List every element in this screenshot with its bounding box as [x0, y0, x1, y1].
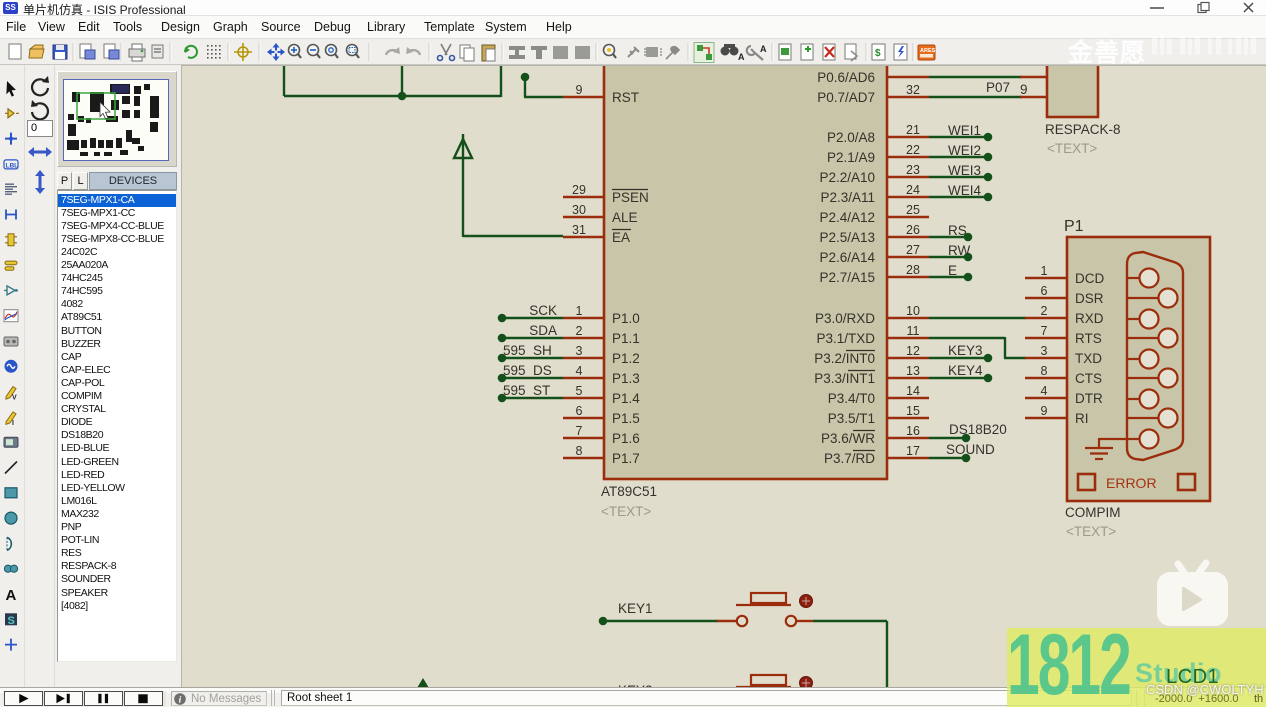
selector buttons: [57, 172, 72, 190]
pin 8 P1.7: [563, 457, 605, 459]
title bar: [0, 0, 1266, 16]
svg-text:KEY4: KEY4: [948, 363, 983, 378]
wire P2 net RW: [929, 256, 968, 258]
pin 2 RXD: [1025, 317, 1068, 319]
svg-text:P3.2/INT0: P3.2/INT0: [814, 351, 875, 366]
pin P0.6/AD6: [886, 76, 929, 78]
ground symbol: [1099, 438, 1128, 440]
button actuator dot: [800, 595, 813, 608]
wire EA horizontal: [463, 235, 563, 237]
svg-text:P3.3/INT1: P3.3/INT1: [814, 371, 875, 386]
pin 6 DSR: [1025, 297, 1068, 299]
svg-text:P0.6/AD6: P0.6/AD6: [817, 70, 875, 85]
wire P3.7 net SOUND: [929, 457, 966, 459]
rotate controls: [26, 72, 54, 192]
svg-text:SCK: SCK: [529, 303, 557, 318]
pin 14 P3.4/T0: [886, 397, 929, 399]
toolbar: [0, 38, 1266, 65]
svg-text:8: 8: [1041, 364, 1048, 378]
power terminal VCC arrow: [454, 139, 472, 158]
svg-text:22: 22: [906, 143, 920, 157]
svg-text:9: 9: [1020, 82, 1028, 97]
DB9 pin hole right: [1127, 417, 1159, 419]
svg-text:ARES: ARES: [920, 48, 936, 54]
svg-text:ALE: ALE: [612, 210, 638, 225]
svg-text:595_SH: 595_SH: [503, 343, 552, 358]
wire RST horizontal: [524, 96, 563, 98]
svg-text:4: 4: [1041, 384, 1048, 398]
svg-text:P0.7/AD7: P0.7/AD7: [817, 90, 875, 105]
pin 21 P2.0/A8: [886, 136, 929, 138]
DB9 connector outline: [1127, 252, 1183, 460]
wire P2 net WEI2: [929, 156, 988, 158]
svg-text:AT89C51: AT89C51: [601, 484, 657, 499]
wire to button: [603, 620, 718, 622]
svg-text:WEI4: WEI4: [948, 183, 981, 198]
wire vertical mid: [401, 66, 403, 96]
svg-text:7: 7: [576, 424, 583, 438]
svg-text:ERROR: ERROR: [1106, 475, 1157, 491]
pin 13 P3.3/INT1: [886, 377, 929, 379]
svg-text:30: 30: [572, 203, 586, 217]
watermark CSDN id: [1146, 682, 1264, 697]
svg-text:EA: EA: [612, 230, 630, 245]
svg-text:KEY3: KEY3: [948, 343, 983, 358]
left tool strip: [0, 0, 24, 680]
svg-text:P2.4/A12: P2.4/A12: [819, 210, 875, 225]
pin 4 P1.3: [563, 377, 605, 379]
wire P2 net WEI1: [929, 136, 988, 138]
svg-text:SDA: SDA: [529, 323, 557, 338]
wire P3.6 net DS18B20: [929, 437, 966, 439]
message area: [171, 691, 267, 706]
pin 22 P2.1/A9: [886, 156, 929, 158]
button pin left: [717, 702, 736, 704]
svg-text:P3.7/RD: P3.7/RD: [824, 451, 875, 466]
wire to button: [603, 702, 718, 704]
svg-text:11: 11: [907, 324, 920, 338]
svg-text:24: 24: [906, 183, 920, 197]
svg-text:2: 2: [1041, 304, 1048, 318]
svg-text:RESPACK-8: RESPACK-8: [1045, 122, 1121, 137]
watermark 1812 studio badge: [1007, 628, 1266, 707]
svg-text:10: 10: [906, 304, 920, 318]
svg-text:P3.6/WR: P3.6/WR: [821, 431, 875, 446]
svg-text:595_ST: 595_ST: [503, 383, 550, 398]
DB9 pin hole left: [1127, 358, 1140, 360]
status bar: [0, 687, 1266, 707]
svg-text:31: 31: [572, 223, 586, 237]
svg-text:P3.4/T0: P3.4/T0: [828, 391, 875, 406]
wire P3 net KEY4: [929, 377, 988, 379]
pin 29 PSEN: [563, 196, 605, 198]
svg-text:9: 9: [1041, 404, 1048, 418]
wire P1 net 595_ST: [502, 397, 563, 399]
pin 10 P3.0/RXD: [886, 317, 929, 319]
svg-text:DTR: DTR: [1075, 391, 1103, 406]
svg-text:2: 2: [576, 324, 583, 338]
DB9 pin hole left: [1127, 318, 1140, 320]
svg-text:28: 28: [906, 263, 920, 277]
svg-text:P1.5: P1.5: [612, 411, 640, 426]
wire top bus horizontal: [284, 95, 501, 97]
svg-text:8: 8: [576, 444, 583, 458]
pin 16 P3.6/WR: [886, 437, 929, 439]
svg-text:DS18B20: DS18B20: [949, 422, 1007, 437]
DB9 pin hole left: [1127, 277, 1140, 279]
wire vertical right: [500, 66, 502, 97]
svg-text:21: 21: [906, 123, 920, 137]
svg-text:P3.5/T1: P3.5/T1: [828, 411, 875, 426]
pin 8 CTS: [1025, 377, 1068, 379]
wire P2 net WEI3: [929, 176, 988, 178]
svg-text:LBL: LBL: [6, 162, 19, 169]
wire P1 net 595_DS: [502, 377, 563, 379]
svg-text:DSR: DSR: [1075, 291, 1104, 306]
pin 31 EA: [563, 236, 605, 238]
svg-text:E: E: [948, 263, 957, 278]
button pin left: [717, 620, 736, 622]
svg-text:32: 32: [906, 83, 920, 97]
svg-text:12: 12: [906, 344, 920, 358]
svg-text:COMPIM: COMPIM: [1065, 505, 1121, 520]
svg-text:RS: RS: [948, 223, 967, 238]
root sheet field: [281, 690, 1132, 706]
svg-text:P2.5/A13: P2.5/A13: [819, 230, 875, 245]
DB9 pin hole right: [1127, 337, 1159, 339]
svg-text:TXD: TXD: [1075, 351, 1102, 366]
pin 1 DCD: [1025, 277, 1068, 279]
wire P1 net SDA: [502, 337, 563, 339]
pin 2 P1.1: [563, 337, 605, 339]
svg-text:3: 3: [576, 344, 583, 358]
junction on top bus: [398, 92, 407, 101]
pin 9 RI: [1025, 417, 1068, 419]
wire P0.7 to RESPACK: [929, 96, 1022, 98]
pin 30 ALE: [563, 216, 605, 218]
svg-text:A: A: [738, 52, 745, 62]
pin 27 P2.6/A14: [886, 256, 929, 258]
svg-text:RTS: RTS: [1075, 331, 1102, 346]
svg-text:P2.6/A14: P2.6/A14: [819, 250, 875, 265]
pin 1 P1.0: [563, 317, 605, 319]
svg-text:15: 15: [906, 404, 920, 418]
svg-text:P2.1/A9: P2.1/A9: [827, 150, 875, 165]
svg-text:<TEXT>: <TEXT>: [601, 504, 651, 519]
svg-text:S: S: [8, 615, 15, 627]
wire vertical left: [283, 66, 285, 96]
wire P3.0 RXD to COMPIM: [929, 317, 1026, 319]
op-amp U1 AT89C51 body: [604, 53, 887, 479]
pin 25 P2.4/A12: [886, 216, 929, 218]
wire EA vertical: [462, 158, 464, 237]
pin 12 P3.2/INT0: [886, 357, 929, 359]
svg-text:3: 3: [1041, 344, 1048, 358]
wire P2 net E: [929, 276, 968, 278]
wire from button: [813, 620, 887, 622]
DB9 pin hole left: [1127, 398, 1140, 400]
pin 17 P3.7/RD: [886, 457, 929, 459]
svg-text:WEI2: WEI2: [948, 143, 981, 158]
svg-text:RW: RW: [948, 243, 971, 258]
svg-text:<TEXT>: <TEXT>: [1066, 524, 1116, 539]
overview pane: [57, 71, 177, 167]
svg-text:1: 1: [576, 304, 583, 318]
svg-text:A: A: [6, 587, 17, 604]
svg-text:9: 9: [576, 83, 583, 97]
svg-text:P3.1/TXD: P3.1/TXD: [816, 331, 875, 346]
svg-text:RI: RI: [1075, 411, 1089, 426]
svg-text:5: 5: [576, 384, 583, 398]
pin 23 P2.2/A10: [886, 176, 929, 178]
svg-text:WEI3: WEI3: [948, 163, 981, 178]
svg-text:6: 6: [576, 404, 583, 418]
wire from button: [813, 702, 887, 704]
svg-text:CTS: CTS: [1075, 371, 1102, 386]
wire P2 net RS: [929, 236, 968, 238]
svg-text:6: 6: [1041, 284, 1048, 298]
pin 9 RST: [563, 96, 605, 98]
device list: [57, 190, 177, 662]
menu bar: [0, 16, 1266, 38]
svg-text:P1.2: P1.2: [612, 351, 640, 366]
svg-text:595_DS: 595_DS: [503, 363, 552, 378]
wire P1 net SCK: [502, 317, 563, 319]
svg-text:P07: P07: [986, 80, 1010, 95]
DB9 pin hole left: [1127, 438, 1140, 440]
left panel: [0, 65, 181, 687]
pin 3 TXD: [1025, 357, 1068, 359]
svg-text:i: i: [179, 696, 182, 706]
svg-text:P2.2/A10: P2.2/A10: [819, 170, 875, 185]
pin 32 P0.7/AD7: [886, 96, 929, 98]
svg-text:23: 23: [906, 163, 920, 177]
pin 4 DTR: [1025, 397, 1068, 399]
button pin right: [786, 698, 796, 707]
button actuator dot: [800, 677, 813, 690]
svg-text:V: V: [12, 395, 17, 402]
svg-text:P1.1: P1.1: [612, 331, 640, 346]
svg-text:4: 4: [576, 364, 583, 378]
svg-text:P1.6: P1.6: [612, 431, 640, 446]
svg-text:WEI1: WEI1: [948, 123, 981, 138]
wire P2 net WEI4: [929, 196, 988, 198]
resistor pack RP1 RESPACK-8: [1047, 51, 1098, 117]
svg-text:17: 17: [906, 444, 920, 458]
svg-text:1: 1: [1041, 264, 1048, 278]
svg-text:29: 29: [572, 183, 586, 197]
svg-text:P1.3: P1.3: [612, 371, 640, 386]
svg-text:13: 13: [906, 364, 920, 378]
pin 5 P1.4: [563, 397, 605, 399]
pin 15 P3.5/T1: [886, 417, 929, 419]
button cap: [751, 593, 786, 603]
pin 11 P3.1/TXD: [886, 337, 929, 339]
svg-text:PSEN: PSEN: [612, 190, 649, 205]
wire KEY1 to KEY2 vertical: [886, 621, 888, 688]
svg-text:P2.3/A11: P2.3/A11: [820, 190, 875, 205]
simulation buttons: [3, 691, 166, 706]
svg-text:RXD: RXD: [1075, 311, 1104, 326]
svg-text:P1.7: P1.7: [612, 451, 640, 466]
pin 26 P2.5/A13: [886, 236, 929, 238]
DB9 pin hole right: [1127, 297, 1159, 299]
svg-text:$: $: [875, 48, 881, 59]
watermark TV play icon: [1150, 555, 1240, 635]
svg-text:27: 27: [906, 243, 920, 257]
svg-text:A: A: [760, 44, 767, 54]
pin 7 P1.6: [563, 437, 605, 439]
button pin right: [786, 616, 796, 626]
svg-text:26: 26: [906, 223, 920, 237]
wire RST vertical: [524, 77, 526, 97]
svg-text:25: 25: [906, 203, 920, 217]
wire P0.6 to RESPACK: [929, 76, 1022, 78]
wire P3.1 TXD to COMPIM jog: [929, 337, 1005, 339]
svg-text:7: 7: [1041, 324, 1048, 338]
svg-text:16: 16: [906, 424, 920, 438]
svg-text:P2.7/A15: P2.7/A15: [819, 270, 875, 285]
svg-text:P1: P1: [1064, 218, 1084, 235]
watermark top text: [1068, 33, 1146, 69]
button cap: [751, 675, 786, 685]
svg-text:14: 14: [906, 384, 920, 398]
pin 6 P1.5: [563, 417, 605, 419]
ERROR indicator left square: [1078, 474, 1095, 490]
svg-text:P1.0: P1.0: [612, 311, 640, 326]
svg-text:RST: RST: [612, 90, 639, 105]
svg-text:KEY1: KEY1: [618, 601, 653, 616]
ground arrow tip bottom: [417, 678, 429, 688]
svg-text:P2.0/A8: P2.0/A8: [827, 130, 875, 145]
svg-text:I: I: [12, 420, 14, 427]
junction: [599, 617, 608, 626]
junction RST top: [521, 73, 530, 82]
wire P3 net KEY3: [929, 357, 988, 359]
DB9 pin hole right: [1127, 377, 1159, 379]
svg-text:<TEXT>: <TEXT>: [1047, 141, 1097, 156]
svg-text:P3.0/RXD: P3.0/RXD: [815, 311, 875, 326]
pin 24 P2.3/A11: [886, 196, 929, 198]
wire P1 net 595_SH: [502, 357, 563, 359]
svg-text:DCD: DCD: [1075, 271, 1104, 286]
pin 3 P1.2: [563, 357, 605, 359]
ERROR indicator right square: [1178, 474, 1195, 490]
connector P1 COMPIM body: [1067, 237, 1210, 501]
pin 7 RTS: [1025, 337, 1068, 339]
pin 28 P2.7/A15: [886, 276, 929, 278]
svg-text:P1.4: P1.4: [612, 391, 640, 406]
junction: [599, 699, 608, 707]
LCD1 schematic label under badge: [1166, 666, 1219, 689]
svg-text:SOUND: SOUND: [946, 442, 995, 457]
